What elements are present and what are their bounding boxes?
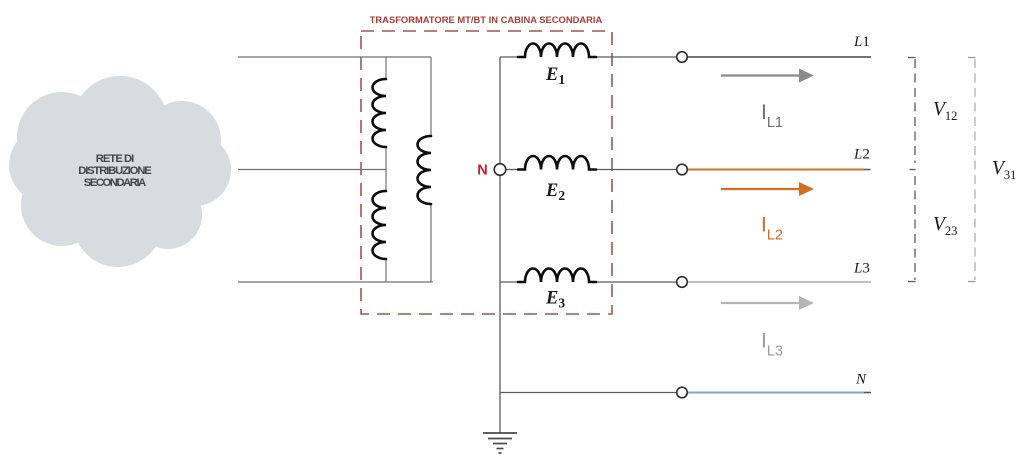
svg-text:DISTRIBUZIONE: DISTRIBUZIONE (78, 165, 152, 177)
svg-text:N: N (477, 163, 487, 179)
svg-text:N: N (855, 372, 867, 388)
svg-text:L3: L3 (853, 261, 870, 277)
svg-text:SECONDARIA: SECONDARIA (84, 177, 147, 189)
svg-text:L1: L1 (853, 34, 870, 50)
svg-text:RETE DI: RETE DI (96, 153, 135, 165)
svg-text:L2: L2 (853, 147, 870, 163)
svg-text:TRASFORMATORE MT/BT IN CABINA: TRASFORMATORE MT/BT IN CABINA SECONDARIA (370, 14, 603, 25)
